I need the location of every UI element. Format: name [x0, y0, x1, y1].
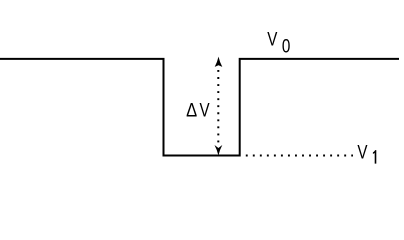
node arrowhead up — [215, 57, 223, 67]
node delta-V label delta — [186, 100, 197, 121]
node V0 label V — [267, 28, 278, 50]
node delta-V label V — [200, 99, 211, 121]
svg-text:Δ: Δ — [186, 100, 197, 121]
node V0 label subscript 0 — [282, 35, 290, 57]
svg-text:V: V — [357, 141, 368, 163]
node arrowhead down — [215, 145, 223, 156]
node V1 label V — [357, 141, 368, 163]
svg-text:V: V — [200, 99, 211, 121]
node V1 label subscript 1 — [373, 150, 376, 164]
wire waveform pulse outline — [0, 59, 399, 156]
svg-text:V: V — [267, 28, 278, 50]
wire dotted arrow shaft — [217, 70, 219, 143]
wire dotted V1 level line — [246, 155, 353, 157]
svg-text:0: 0 — [282, 35, 290, 57]
